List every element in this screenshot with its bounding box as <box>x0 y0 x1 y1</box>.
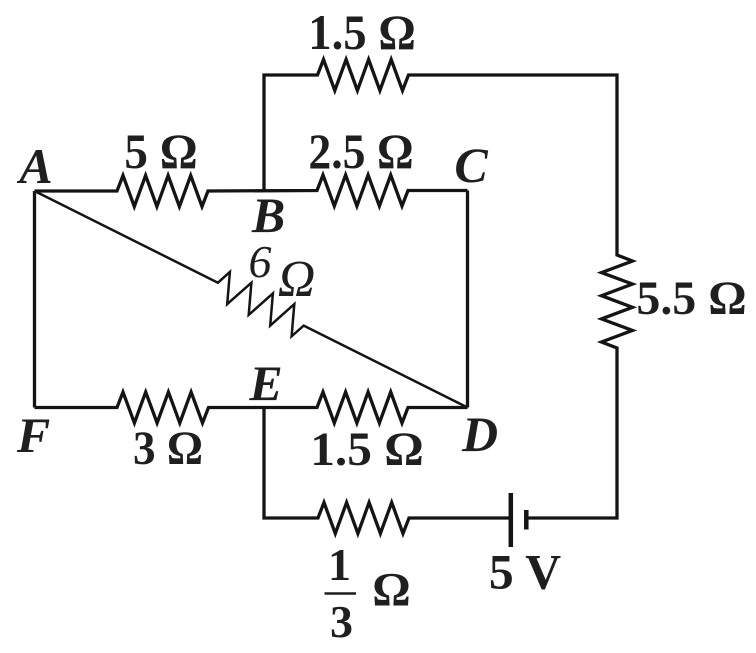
svg-text:3 Ω: 3 Ω <box>133 422 203 475</box>
svg-text:6: 6 <box>249 236 272 287</box>
svg-text:A: A <box>16 138 52 194</box>
svg-text:Ω: Ω <box>278 251 316 308</box>
svg-text:5 Ω: 5 Ω <box>124 123 197 179</box>
svg-text:E: E <box>248 355 282 411</box>
svg-text:Ω: Ω <box>372 564 410 617</box>
svg-text:2.5 Ω: 2.5 Ω <box>308 123 413 179</box>
svg-text:F: F <box>16 407 50 463</box>
svg-text:C: C <box>454 137 488 193</box>
svg-text:D: D <box>461 406 498 462</box>
svg-text:5 V: 5 V <box>489 544 561 600</box>
svg-text:1: 1 <box>328 539 351 590</box>
svg-text:1.5 Ω: 1.5 Ω <box>310 423 424 476</box>
svg-text:5.5 Ω: 5.5 Ω <box>636 272 746 325</box>
svg-text:B: B <box>251 187 285 243</box>
svg-text:3: 3 <box>330 596 353 647</box>
svg-text:1.5 Ω: 1.5 Ω <box>308 4 416 60</box>
